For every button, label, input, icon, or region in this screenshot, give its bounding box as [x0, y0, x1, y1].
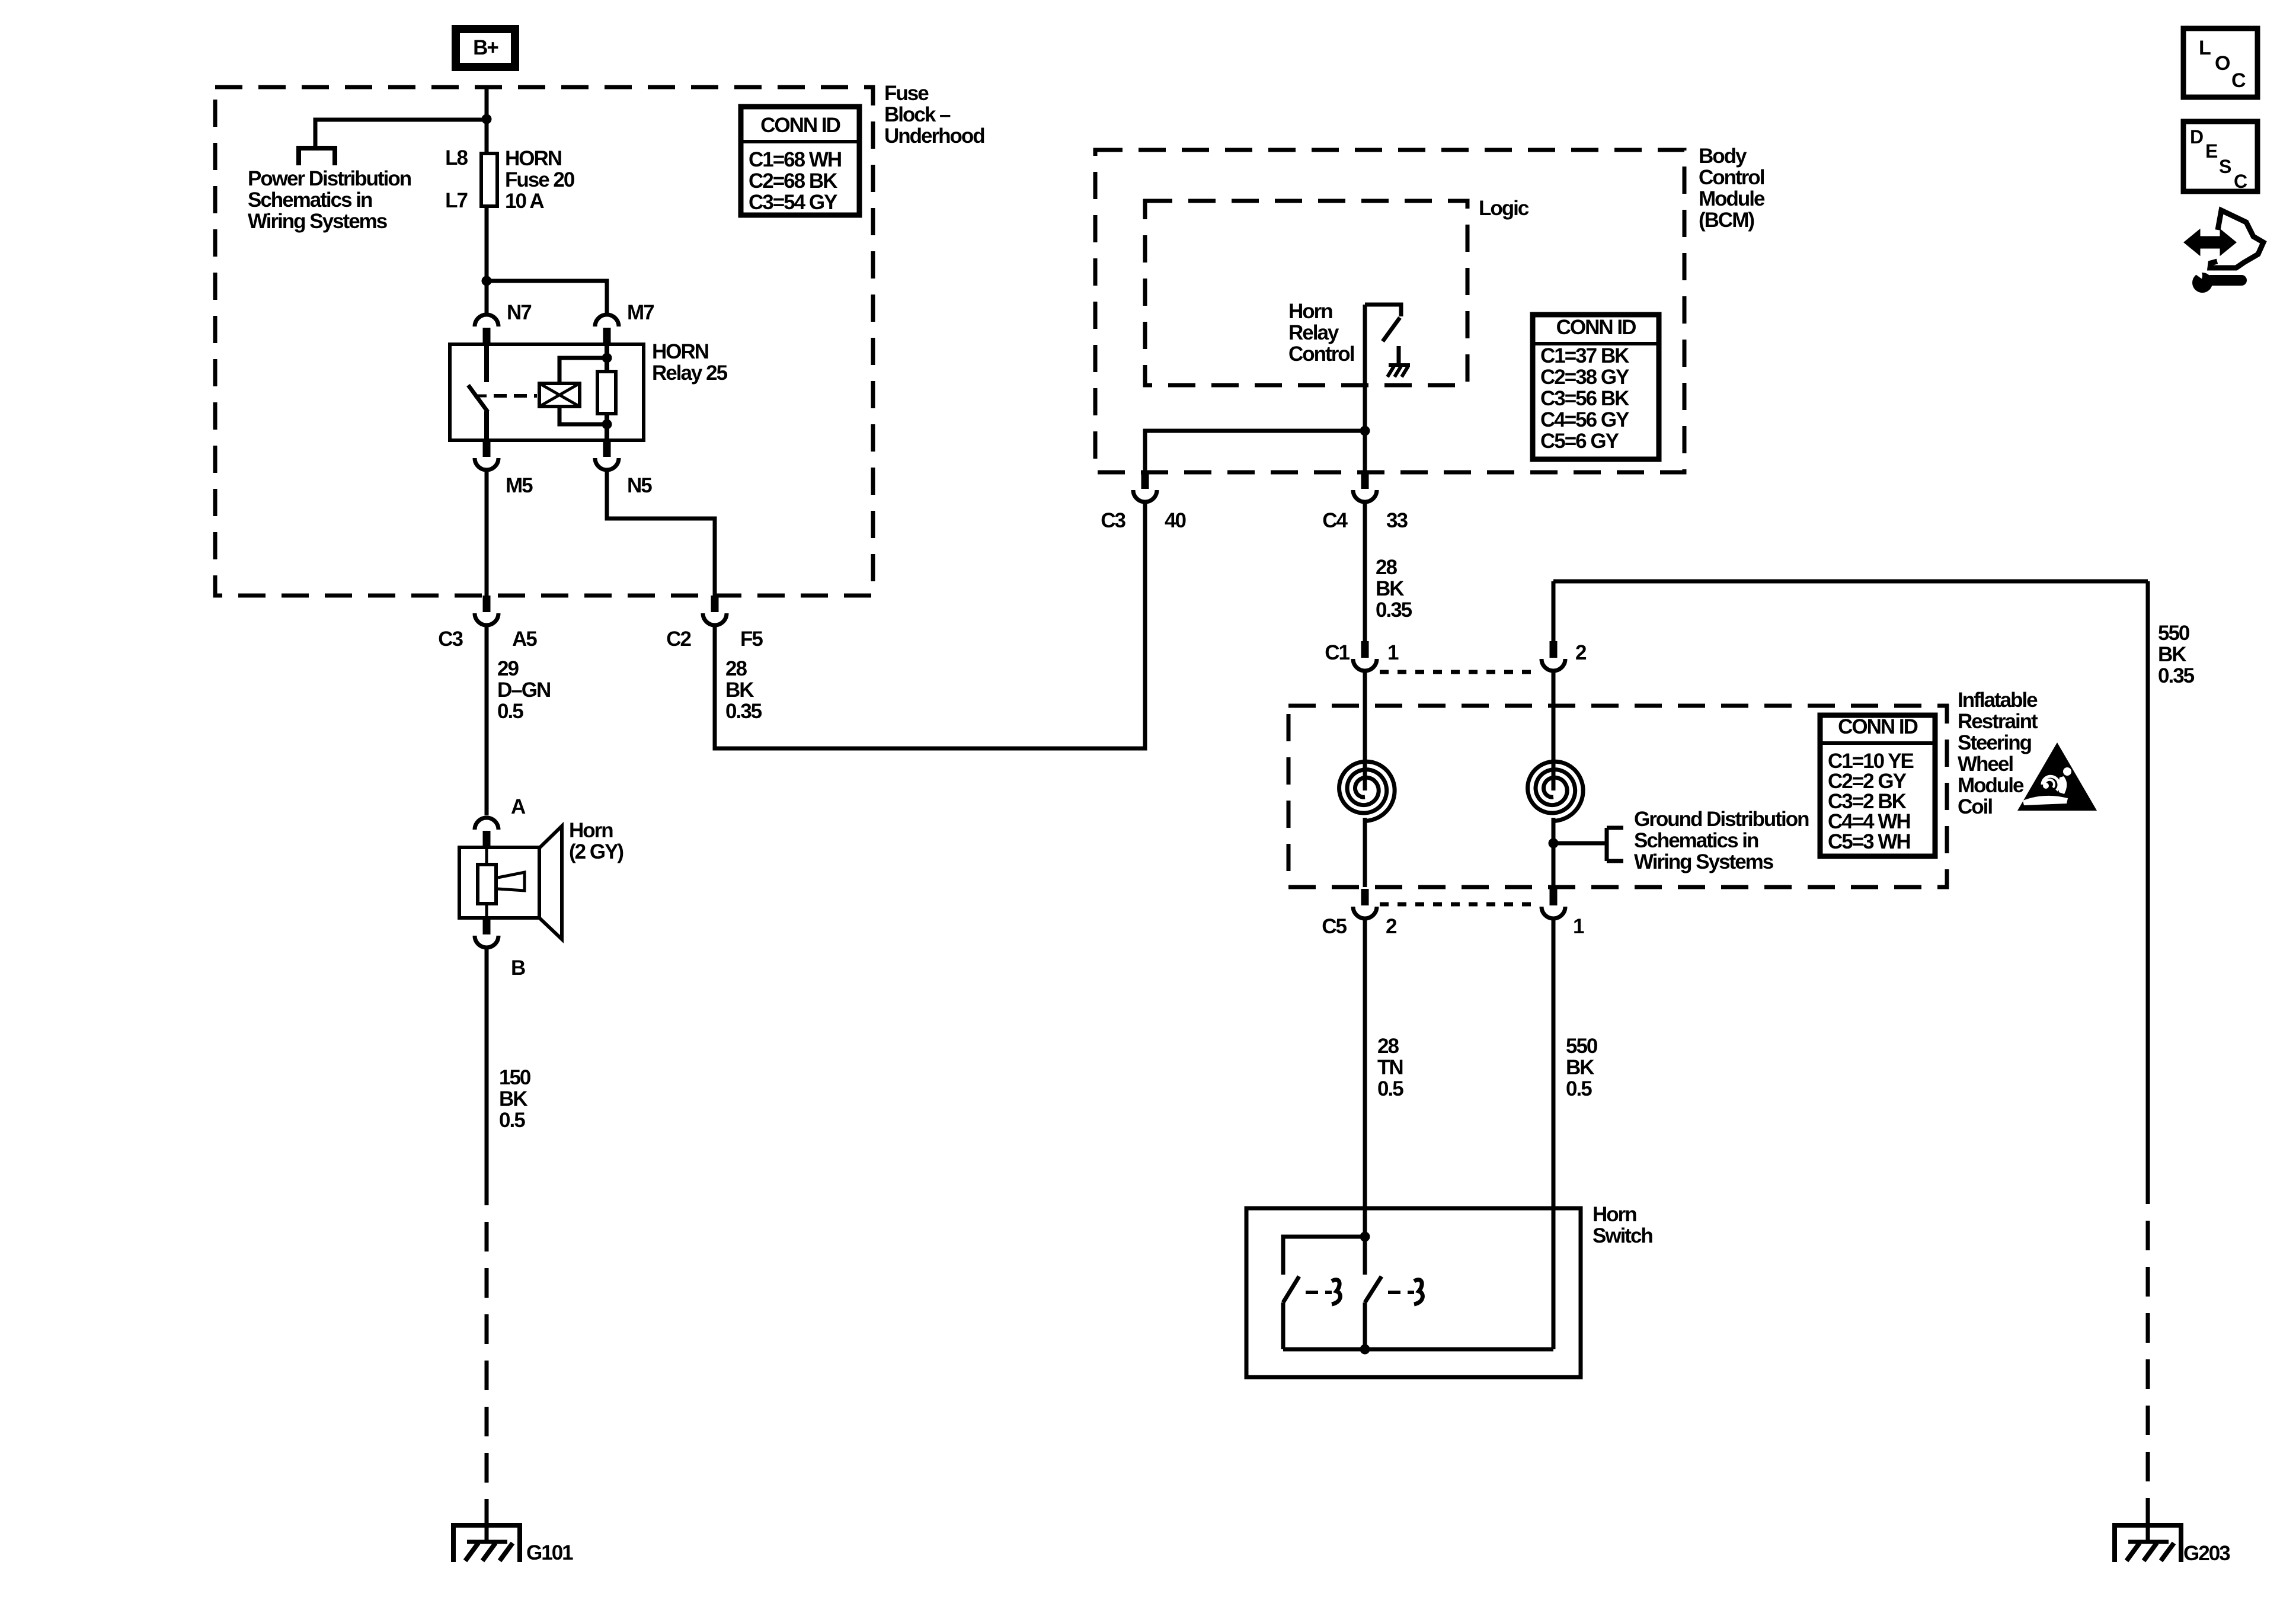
svg-text:C2=38 GY: C2=38 GY: [1540, 366, 1629, 389]
SIR caution triangle: [2017, 742, 2097, 811]
svg-text:Fuse: Fuse: [884, 82, 929, 105]
wire right ground run dashed: [2146, 1174, 2150, 1525]
conn-id table coil: [1820, 715, 1935, 856]
clockspring coil 1: [1339, 761, 1395, 821]
wire label 28 BK 0.35 (C4): [1376, 556, 1412, 622]
svg-text:C2: C2: [666, 628, 691, 651]
svg-text:2: 2: [1386, 915, 1397, 938]
svg-text:2: 2: [1575, 641, 1587, 664]
svg-text:Horn: Horn: [569, 819, 613, 842]
wire label 550 BK 0.35: [2158, 622, 2195, 687]
connector M5: [475, 440, 498, 470]
svg-text:Steering: Steering: [1958, 731, 2032, 754]
connector 1 (coil bottom right): [1542, 889, 1565, 918]
driver ground: [1387, 346, 1410, 377]
relay switch contact: [468, 344, 488, 440]
fuse terminal label L7: [445, 189, 467, 212]
svg-text:(2 GY): (2 GY): [569, 840, 623, 863]
contact 2 dashed link: [1388, 1291, 1414, 1294]
node coil top: [602, 353, 612, 363]
wire fuse to relay junction: [485, 208, 489, 281]
svg-text:TN: TN: [1377, 1056, 1403, 1079]
svg-text:C5: C5: [1322, 915, 1347, 938]
svg-text:A: A: [511, 795, 526, 818]
svg-text:Wiring Systems: Wiring Systems: [1634, 850, 1774, 873]
wire N5 to F5: [607, 469, 715, 596]
svg-text:B: B: [511, 956, 525, 980]
wire label 29 D-GN 0.5: [497, 657, 550, 723]
horn switch contact 1: [1283, 1276, 1299, 1349]
ground distribution pointer bracket: [1553, 828, 1623, 861]
node ground distribution tap: [1549, 838, 1559, 849]
logic label: [1479, 197, 1529, 220]
svg-text:Logic: Logic: [1479, 197, 1529, 220]
svg-text:C5=3 WH: C5=3 WH: [1828, 830, 1910, 853]
svg-text:D–GN: D–GN: [497, 678, 550, 702]
svg-text:CONN ID: CONN ID: [1838, 715, 1918, 738]
svg-text:G203: G203: [2183, 1542, 2230, 1565]
horn sounder: [459, 826, 562, 939]
svg-text:CONN ID: CONN ID: [1556, 316, 1636, 339]
svg-text:C3=56 BK: C3=56 BK: [1540, 387, 1629, 410]
wire B+ feed down: [485, 89, 489, 152]
BCM label: [1699, 145, 1765, 232]
svg-text:C: C: [2234, 171, 2247, 192]
wire label 28 TN 0.5: [1377, 1035, 1403, 1100]
svg-text:0.5: 0.5: [499, 1109, 525, 1132]
wire C1 to spiral: [1363, 670, 1367, 790]
svg-text:Wiring Systems: Wiring Systems: [248, 210, 388, 233]
wire 1 to horn switch: [1552, 917, 1556, 1349]
power feed B+: [456, 29, 515, 67]
relay label: [652, 340, 728, 385]
connector C1 1 (coil): [1353, 641, 1377, 671]
coil module boundary: [1288, 706, 1947, 887]
svg-text:Fuse 20: Fuse 20: [505, 168, 575, 191]
svg-text:Schematics in: Schematics in: [248, 188, 372, 212]
svg-text:HORN: HORN: [652, 340, 708, 363]
horn relay control driver switch: [1365, 305, 1401, 341]
ground distribution note: [1634, 808, 1809, 873]
svg-text:Module: Module: [1699, 187, 1765, 210]
fuse name label: [505, 147, 575, 213]
svg-text:Switch: Switch: [1593, 1224, 1652, 1247]
svg-text:Horn: Horn: [1288, 300, 1332, 323]
svg-text:Control: Control: [1699, 166, 1764, 189]
horn switch box: [1246, 1208, 1581, 1377]
wire label 150 BK 0.5: [499, 1066, 531, 1132]
connector B (horn): [475, 918, 498, 948]
svg-text:Relay: Relay: [1288, 321, 1339, 344]
connector C3 A5: [475, 596, 498, 625]
off-page reference bracket (power distribution): [299, 146, 335, 165]
svg-text:CONN ID: CONN ID: [760, 114, 840, 137]
node relay feed junction: [482, 276, 492, 286]
wire 2 to spiral: [1552, 670, 1556, 790]
svg-text:B+: B+: [473, 36, 498, 59]
wire M5 to fuse block edge: [485, 469, 489, 596]
svg-text:D: D: [2190, 126, 2203, 148]
svg-text:1: 1: [1573, 915, 1584, 938]
wire coil 2 up and across: [1553, 580, 2148, 584]
svg-text:0.35: 0.35: [725, 700, 762, 723]
contact 2 fixed side: [1414, 1280, 1422, 1304]
relay coil leads: [559, 358, 607, 424]
clockspring coil 2: [1528, 761, 1584, 821]
svg-text:E: E: [2205, 140, 2218, 162]
body control module boundary: [1095, 150, 1684, 472]
relay resistor: [597, 372, 616, 414]
svg-text:0.5: 0.5: [1566, 1077, 1592, 1100]
connector C3 40 (BCM): [1133, 472, 1157, 502]
horn relay control label: [1288, 300, 1354, 366]
relay internal wire M7 side: [605, 344, 609, 440]
node coil bottom: [602, 420, 612, 430]
svg-text:S: S: [2219, 156, 2231, 177]
svg-text:0.5: 0.5: [497, 700, 523, 723]
fuse block - underhood boundary: [215, 87, 873, 596]
svg-text:F5: F5: [740, 628, 763, 651]
wire spiral1 to C5: [1363, 818, 1367, 887]
dotted connector tie C5: [1380, 902, 1539, 907]
svg-text:Underhood: Underhood: [884, 124, 984, 148]
connector N5: [595, 440, 619, 470]
svg-text:BK: BK: [499, 1087, 527, 1110]
wire horn ground dashed part: [485, 1176, 489, 1525]
conn-id table fuse block: [741, 107, 859, 215]
svg-text:33: 33: [1386, 509, 1408, 532]
svg-text:C3=54 GY: C3=54 GY: [749, 191, 837, 214]
svg-text:Relay 25: Relay 25: [652, 361, 728, 385]
connector C5 2 (coil bottom): [1353, 889, 1377, 918]
svg-text:Restraint: Restraint: [1958, 710, 2038, 733]
svg-text:BK: BK: [1376, 577, 1404, 600]
connector 2 (coil top right): [1542, 641, 1565, 671]
svg-text:0.35: 0.35: [2158, 664, 2195, 687]
svg-text:O: O: [2215, 52, 2230, 75]
wire C4 down: [1363, 501, 1367, 641]
contact 1 fixed side: [1332, 1280, 1340, 1304]
fuse HORN Fuse 20 10A: [481, 152, 497, 208]
svg-text:C4: C4: [1322, 509, 1348, 532]
relay actuator dashed link: [494, 394, 537, 398]
wire right ground run solid: [2146, 581, 2150, 1174]
svg-text:C4=56 GY: C4=56 GY: [1540, 408, 1629, 431]
svg-text:L7: L7: [445, 189, 467, 212]
wire branch to power distribution reference: [315, 120, 487, 148]
svg-text:C3: C3: [1101, 509, 1125, 532]
fuse block label: [884, 82, 984, 148]
node horn switch bottom junction: [1360, 1345, 1370, 1355]
LOC reference box: [2183, 28, 2257, 97]
wire spiral2 down: [1552, 818, 1556, 887]
wire label 28 BK 0.35 (F5): [725, 657, 762, 723]
svg-text:N5: N5: [627, 474, 652, 497]
ground G101: [453, 1523, 520, 1562]
svg-text:Ground Distribution: Ground Distribution: [1634, 808, 1809, 831]
svg-text:C3: C3: [438, 628, 463, 651]
svg-text:G101: G101: [526, 1541, 573, 1564]
svg-text:C1=68 WH: C1=68 WH: [749, 148, 841, 171]
svg-text:Wheel: Wheel: [1958, 753, 2013, 776]
svg-text:Block –: Block –: [884, 103, 951, 126]
svg-text:Control: Control: [1288, 343, 1354, 366]
svg-text:Schematics in: Schematics in: [1634, 829, 1758, 852]
dotted connector tie C1: [1380, 670, 1539, 674]
svg-text:BK: BK: [2158, 643, 2186, 666]
connector A (horn): [475, 818, 498, 847]
svg-text:40: 40: [1165, 509, 1186, 532]
wire horn to ground solid part: [485, 946, 489, 1176]
svg-text:C2=68 BK: C2=68 BK: [749, 169, 837, 193]
node BCM output junction: [1360, 426, 1370, 436]
svg-text:BK: BK: [725, 678, 754, 702]
relay coil (box with X): [539, 383, 580, 406]
logic boundary: [1145, 201, 1467, 385]
wire middle pole upper: [1363, 1237, 1367, 1275]
svg-text:L8: L8: [445, 146, 468, 169]
wire junction to N7: [485, 281, 489, 316]
svg-text:550: 550: [2158, 622, 2190, 645]
svg-text:0.5: 0.5: [1377, 1077, 1403, 1100]
svg-text:HORN: HORN: [505, 147, 561, 170]
contact 1 dashed link: [1306, 1291, 1332, 1294]
svg-text:Body: Body: [1699, 145, 1747, 168]
svg-text:Module: Module: [1958, 774, 2024, 797]
svg-text:28: 28: [1377, 1035, 1399, 1058]
horn switch contact 2: [1365, 1276, 1382, 1349]
wire label 550 BK 0.5: [1566, 1035, 1598, 1100]
node fuse top junction: [482, 114, 492, 124]
svg-text:C5=6 GY: C5=6 GY: [1540, 430, 1619, 453]
connector C2 F5: [703, 596, 727, 625]
connector M7: [595, 315, 619, 344]
svg-text:1: 1: [1387, 641, 1399, 664]
navigation icon (arrows, vehicle, wrench): [2186, 210, 2263, 293]
svg-text:28: 28: [725, 657, 747, 680]
connector C4 33 (BCM): [1353, 472, 1377, 502]
svg-text:N7: N7: [507, 301, 531, 324]
svg-text:550: 550: [1566, 1035, 1598, 1058]
power distribution note: [248, 167, 411, 233]
wire F5 to BCM C3: [715, 504, 1145, 748]
wire branch to M7: [487, 281, 607, 316]
wire driver down to C4: [1363, 305, 1367, 472]
node horn switch top junction: [1360, 1232, 1370, 1242]
relay K25 HORN Relay: [450, 344, 644, 440]
svg-text:M5: M5: [506, 474, 533, 497]
horn switch label: [1593, 1203, 1652, 1247]
horn switch bottom bus: [1283, 1347, 1553, 1352]
svg-text:Inflatable: Inflatable: [1958, 689, 2038, 712]
svg-text:A5: A5: [512, 628, 537, 651]
svg-text:BK: BK: [1566, 1056, 1594, 1079]
svg-text:M7: M7: [627, 301, 654, 324]
wire A5 to horn: [485, 624, 489, 815]
svg-text:Power Distribution: Power Distribution: [248, 167, 411, 190]
svg-text:28: 28: [1376, 556, 1397, 579]
svg-text:C: C: [2231, 69, 2246, 92]
connector N7: [475, 315, 498, 344]
DESC reference box: [2183, 121, 2257, 192]
svg-text:10 A: 10 A: [505, 190, 544, 213]
coil module label: [1958, 689, 2038, 818]
svg-text:C1=37 BK: C1=37 BK: [1540, 344, 1629, 367]
svg-text:150: 150: [499, 1066, 531, 1089]
conn-id table BCM: [1533, 315, 1659, 459]
ground G203: [2115, 1523, 2181, 1562]
svg-text:0.35: 0.35: [1376, 598, 1412, 622]
svg-text:Horn: Horn: [1593, 1203, 1636, 1226]
horn label: [569, 819, 623, 863]
svg-text:(BCM): (BCM): [1699, 209, 1754, 232]
svg-text:Coil: Coil: [1958, 795, 1992, 818]
wire C5 to horn switch: [1363, 917, 1367, 1237]
svg-text:29: 29: [497, 657, 519, 680]
wire to left pole: [1283, 1237, 1365, 1275]
wire BCM junction to C3: [1145, 431, 1365, 472]
svg-text:L: L: [2199, 37, 2211, 59]
svg-text:C1: C1: [1325, 641, 1350, 664]
fuse terminal label L8: [445, 146, 468, 169]
